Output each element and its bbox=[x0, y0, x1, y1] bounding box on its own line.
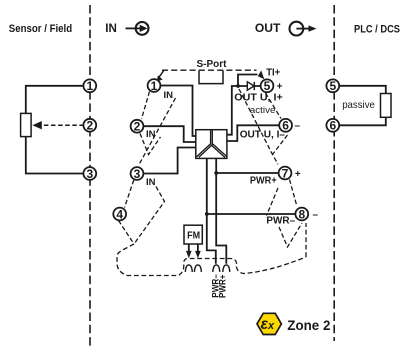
zone boundary sensor/field dashed line bbox=[89, 5, 91, 346]
svg-text:5: 5 bbox=[264, 79, 271, 93]
PLC terminal 6 bbox=[326, 119, 339, 133]
svg-text:2: 2 bbox=[86, 119, 93, 133]
power terminal 8 bbox=[295, 207, 308, 221]
svg-text:+: + bbox=[277, 81, 283, 92]
wire device input terminal 2 to isolator bbox=[143, 126, 195, 142]
housing outline dashed: terminal 7 to 8 diagonal bbox=[290, 180, 298, 207]
isolation amplifier block U1 bbox=[196, 130, 227, 159]
svg-text:IN: IN bbox=[164, 90, 174, 101]
diode D1 bbox=[247, 82, 254, 90]
wire OUT- from isolator to terminal 6 bbox=[227, 125, 279, 141]
junction node OUT+ bbox=[236, 84, 240, 88]
sensor terminal 3 bbox=[83, 167, 96, 181]
svg-text:2: 2 bbox=[134, 120, 141, 134]
label PWR- bbox=[266, 216, 295, 227]
device input terminal 1 bbox=[148, 79, 161, 93]
wire load resistor to PLC terminal 6 bbox=[339, 117, 386, 125]
svg-text:+: + bbox=[295, 169, 301, 180]
FM arrow right bbox=[197, 244, 199, 252]
label OUT U, I- bbox=[240, 129, 286, 140]
svg-text:PWR+: PWR+ bbox=[218, 275, 228, 299]
svg-text:4: 4 bbox=[116, 207, 123, 221]
sensor terminal 2 bbox=[83, 119, 96, 133]
svg-text:–: – bbox=[313, 209, 319, 220]
svg-text:passive: passive bbox=[342, 100, 375, 111]
device input terminal 3 bbox=[131, 167, 144, 181]
output terminal 6 (active) bbox=[279, 119, 292, 133]
wire sensor terminal 1 to potentiometer top bbox=[26, 86, 84, 114]
junction node PWR+ bbox=[214, 171, 218, 175]
wire to power terminal 8 bbox=[207, 213, 296, 215]
device input terminal 4 bbox=[113, 207, 126, 221]
svg-text:Sensor / Field: Sensor / Field bbox=[9, 23, 72, 35]
svg-text:PLC / DCS: PLC / DCS bbox=[354, 24, 400, 36]
svg-text:1: 1 bbox=[86, 79, 93, 93]
housing outline dashed: terminal 1 to 2 bbox=[142, 92, 150, 120]
S-Port connector bracket bbox=[199, 71, 223, 84]
svg-text:IN: IN bbox=[146, 177, 156, 188]
svg-text:–: – bbox=[295, 121, 301, 132]
housing outline dashed: from OUT U I- label to V4 bbox=[273, 135, 288, 155]
svg-text:FM: FM bbox=[187, 231, 200, 242]
icon IN (circle with inward arrow) bbox=[126, 22, 149, 35]
svg-text:OUT: OUT bbox=[255, 21, 281, 35]
housing outline dashed: right edge up to terminal 8 bbox=[305, 223, 307, 257]
label PWR+ bbox=[250, 175, 277, 186]
svg-text:OUT U, I+: OUT U, I+ bbox=[234, 92, 282, 103]
svg-text:6: 6 bbox=[329, 119, 336, 133]
svg-text:S-Port: S-Port bbox=[197, 59, 228, 70]
FM function module box bbox=[184, 225, 202, 244]
TI+ open arrowhead bbox=[258, 70, 265, 79]
potentiometer wiper arrowhead bbox=[32, 121, 41, 129]
icon OUT (circle with outward arrow) bbox=[290, 22, 317, 36]
housing outline dashed: V5 notch below PWR- to terminal 8 bbox=[279, 223, 302, 247]
wire PWR- vertical from isolator bbox=[207, 158, 216, 263]
output terminal 5 (active) bbox=[261, 79, 274, 93]
potentiometer wiper dashed line from terminal 2 bbox=[41, 124, 84, 126]
wire to power terminal 7 bbox=[216, 172, 278, 174]
S-Port dashed line bbox=[162, 69, 257, 71]
connector socket contact 1 bbox=[185, 265, 192, 272]
device input terminal 2 bbox=[131, 120, 144, 134]
svg-text:active: active bbox=[250, 105, 276, 116]
wire PLC terminal 5 to load resistor bbox=[339, 86, 386, 94]
FM arrow left bbox=[188, 244, 190, 252]
svg-text:TI+: TI+ bbox=[266, 68, 280, 79]
housing outline dashed: long diagonal OUT+ node to terminal 7 bbox=[239, 89, 278, 164]
label active bbox=[250, 105, 276, 116]
wire PWR+ vertical from isolator bbox=[216, 158, 226, 263]
housing outline dashed: terminal 4 to V3 bbox=[119, 221, 135, 245]
PLC terminal 5 bbox=[326, 79, 339, 93]
housing outline dashed: long diagonal IN1 to terminal 3 bbox=[139, 98, 176, 166]
svg-text:3: 3 bbox=[134, 167, 141, 181]
junction node PWR- bbox=[205, 212, 209, 216]
housing outline dashed: V notch terminal 2 to IN2 bbox=[140, 134, 161, 155]
connector socket contact 2 bbox=[194, 265, 201, 272]
svg-text:OUT U, I–: OUT U, I– bbox=[240, 129, 286, 140]
wire device input terminal 3 to isolator bbox=[143, 148, 195, 174]
label OUT U, I+ bbox=[234, 92, 282, 103]
svg-text:3: 3 bbox=[86, 167, 93, 181]
load resistor (passive) bbox=[381, 94, 392, 118]
S-Port arrow into terminal 1 bbox=[159, 70, 164, 77]
svg-text:1: 1 bbox=[151, 79, 158, 93]
zone boundary PLC/DCS dashed line bbox=[333, 5, 335, 341]
wire OUT+ from isolator to diode row bbox=[227, 86, 261, 135]
housing outline dashed: IN3 elbow down to V3 bbox=[134, 187, 165, 245]
Ex hexagon logo bbox=[257, 313, 281, 334]
svg-text:PWR+: PWR+ bbox=[250, 175, 277, 186]
housing outline dashed: bottom left bracket and connector bump bbox=[117, 244, 306, 276]
svg-text:8: 8 bbox=[298, 207, 305, 221]
connector socket contact 3 bbox=[213, 265, 220, 272]
wire TI+ tap bbox=[238, 75, 258, 87]
svg-text:PWR–: PWR– bbox=[266, 216, 295, 227]
svg-text:Zone 2: Zone 2 bbox=[287, 318, 330, 333]
svg-text:5: 5 bbox=[329, 79, 336, 93]
housing outline dashed: terminal 5 to 6 diagonal bbox=[266, 93, 282, 119]
power terminal 7 bbox=[279, 166, 292, 180]
connector socket contact 4 bbox=[223, 265, 230, 272]
potentiometer R (sensor) bbox=[21, 113, 32, 136]
svg-text:IN: IN bbox=[146, 129, 156, 140]
svg-text:IN: IN bbox=[105, 21, 117, 35]
housing outline dashed: terminal 3 to 4 bbox=[125, 180, 134, 208]
housing outline dashed: PWR+ label down to PWR- label bbox=[267, 188, 279, 216]
wire potentiometer bottom to sensor terminal 3 bbox=[26, 137, 84, 174]
svg-text:7: 7 bbox=[282, 166, 289, 180]
isolation barrier symbol inside block bbox=[197, 130, 211, 157]
svg-text:6: 6 bbox=[282, 119, 289, 133]
wire device input terminal 1 to isolator bbox=[160, 86, 195, 137]
sensor terminal 1 bbox=[83, 79, 96, 93]
